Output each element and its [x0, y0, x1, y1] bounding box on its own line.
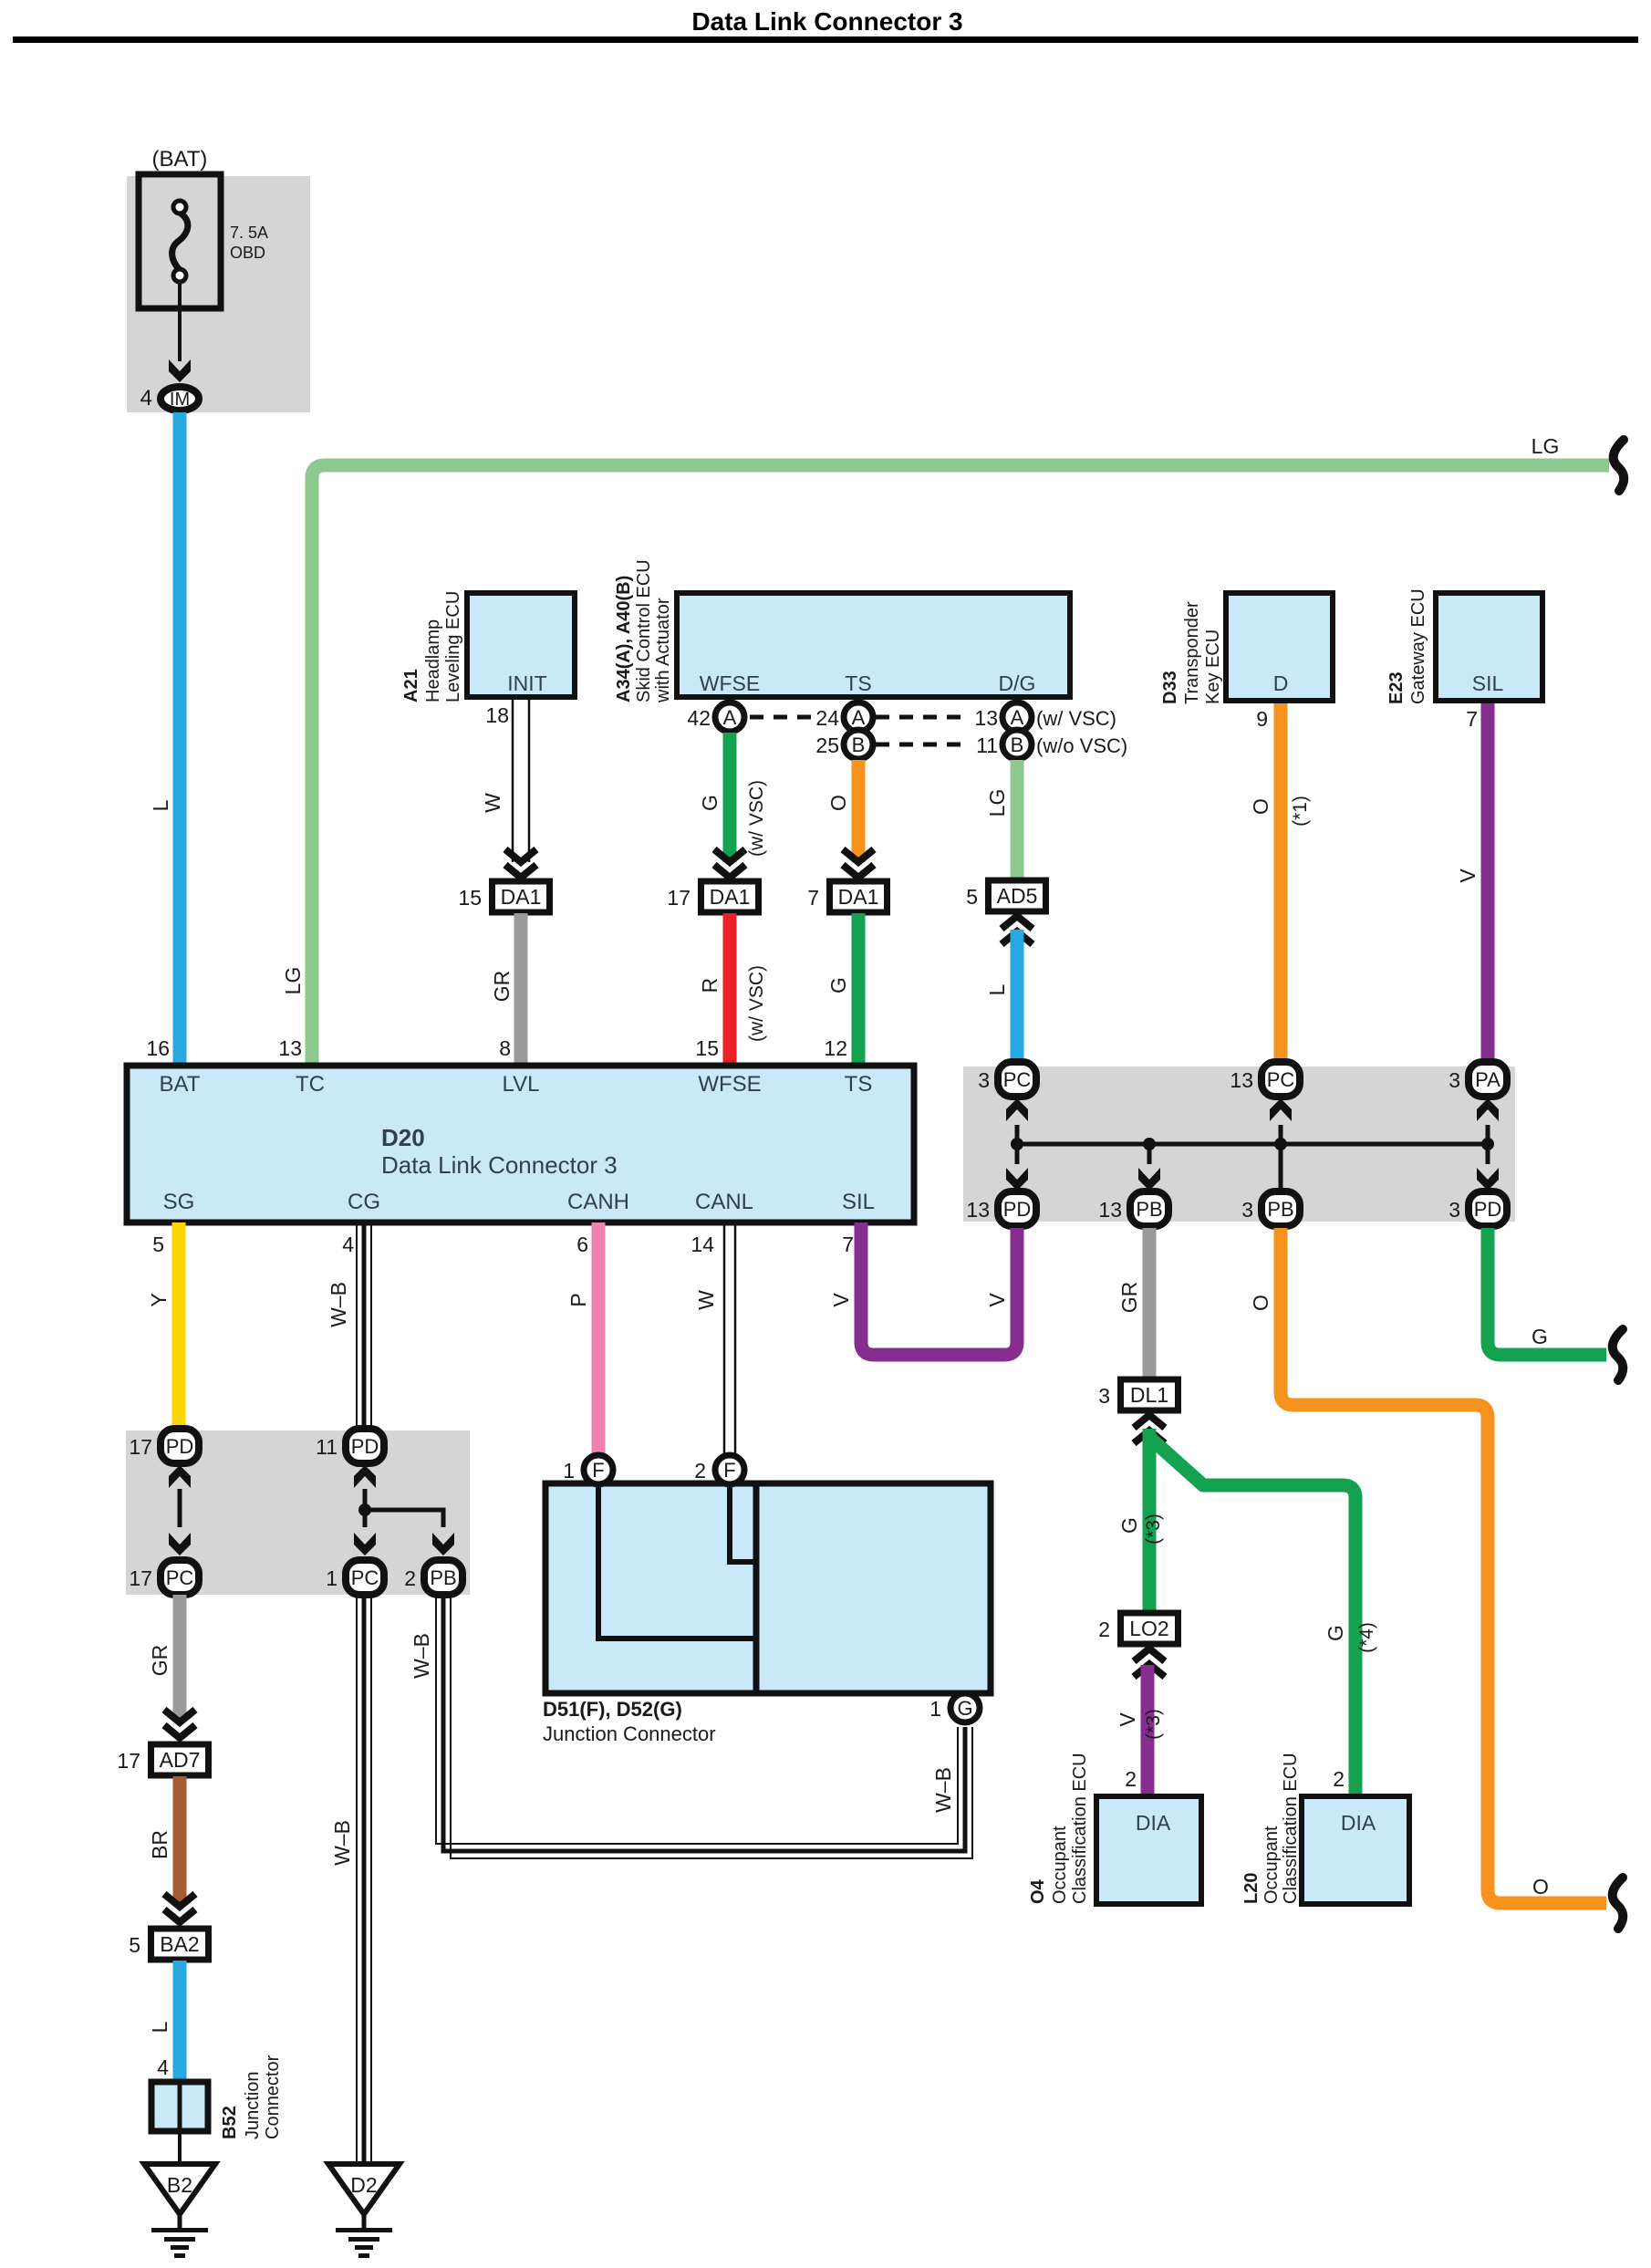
svg-text:CANH: CANH — [567, 1190, 629, 1214]
svg-text:L20: L20 — [1241, 1873, 1262, 1904]
svg-text:CG: CG — [348, 1190, 380, 1214]
svg-text:PB: PB — [1267, 1198, 1293, 1221]
node at 13 PB column — [1143, 1138, 1156, 1150]
svg-text:W–B: W–B — [931, 1767, 955, 1813]
svg-text:PD: PD — [351, 1435, 379, 1458]
svg-text:Y: Y — [147, 1293, 171, 1306]
bus line in right panel — [1017, 1142, 1488, 1147]
wire B52 to ground B2 — [178, 2131, 182, 2164]
svg-text:IM: IM — [170, 390, 190, 410]
svg-text:PC: PC — [1003, 1068, 1032, 1091]
connector 1 F — [584, 1455, 613, 1484]
connector 1 PC — [346, 1560, 384, 1595]
svg-text:3: 3 — [1098, 1384, 1110, 1408]
svg-text:D51(F), D52(G): D51(F), D52(G) — [543, 1698, 682, 1721]
svg-text:A34(A), A40(B): A34(A), A40(B) — [614, 576, 634, 702]
svg-text:W: W — [694, 1290, 718, 1310]
svg-text:A21: A21 — [401, 669, 421, 702]
svg-text:13: 13 — [1098, 1198, 1122, 1222]
wire L blue BA2 to B52 — [173, 1961, 187, 2084]
junction connector B52 — [151, 2082, 208, 2131]
wire Y yellow SG to 17 PD — [172, 1222, 186, 1428]
svg-text:(*3): (*3) — [1143, 1709, 1164, 1740]
svg-text:13: 13 — [278, 1036, 302, 1060]
wire G green branch DL1 to L20 DIA — [1151, 1439, 1355, 1794]
svg-text:D/G: D/G — [999, 671, 1036, 695]
link bus to 13 PB — [1147, 1144, 1152, 1164]
svg-text:DA1: DA1 — [838, 885, 879, 909]
svg-text:TS: TS — [845, 671, 871, 695]
wire GR gray 17 PC to AD7 — [173, 1595, 187, 1721]
wire G green 3 PD to right edge — [1488, 1228, 1606, 1355]
svg-text:5: 5 — [129, 1933, 140, 1957]
svg-text:with Actuator: with Actuator — [653, 598, 673, 703]
svg-text:G: G — [1324, 1625, 1347, 1641]
svg-text:OBD: OBD — [230, 244, 265, 262]
divider D51/D52 — [753, 1483, 760, 1693]
svg-text:A: A — [723, 706, 737, 729]
svg-text:16: 16 — [146, 1036, 170, 1060]
svg-text:2: 2 — [1098, 1618, 1110, 1641]
wire W white CANL to junction F2 — [723, 1222, 726, 1454]
svg-text:BAT: BAT — [160, 1072, 201, 1097]
svg-text:4: 4 — [140, 386, 152, 411]
connector 3 DL1 — [1121, 1379, 1179, 1410]
svg-text:CANL: CANL — [695, 1190, 753, 1214]
svg-text:D33: D33 — [1160, 671, 1180, 704]
svg-text:W: W — [481, 793, 504, 813]
svg-text:PD: PD — [1474, 1198, 1502, 1221]
svg-text:3: 3 — [1241, 1198, 1253, 1222]
wire BR brown AD7 to BA2 — [173, 1776, 187, 1905]
connector 3 PA — [1469, 1062, 1507, 1097]
branch to 2 PB — [365, 1510, 443, 1527]
fuse OBD rectangle — [139, 174, 221, 308]
svg-text:G: G — [957, 1697, 972, 1720]
link 11 PD down — [363, 1489, 368, 1527]
svg-text:TC: TC — [296, 1072, 325, 1097]
svg-text:6: 6 — [576, 1233, 588, 1256]
arrow into AD7 — [164, 1710, 195, 1722]
svg-text:PD: PD — [1003, 1198, 1032, 1221]
connector 15 DA1 — [493, 881, 550, 912]
svg-text:Connector: Connector — [263, 2055, 283, 2139]
arrow into BA2 — [164, 1894, 195, 1907]
svg-text:PC: PC — [166, 1566, 194, 1589]
wire P pink CANH to junction F1 — [592, 1222, 606, 1454]
svg-text:G: G — [1532, 1325, 1548, 1348]
svg-text:AD7: AD7 — [160, 1748, 201, 1772]
ECU E23 Gateway box — [1436, 593, 1542, 701]
link bus to 3 PB — [1279, 1144, 1283, 1191]
wire GR gray 13 PB to DL1 — [1143, 1228, 1157, 1378]
connector 3 PB — [1262, 1191, 1300, 1226]
svg-text:PA: PA — [1475, 1068, 1500, 1091]
svg-text:17: 17 — [129, 1566, 152, 1590]
svg-text:25: 25 — [815, 733, 839, 757]
node at 13 PC column — [1274, 1138, 1287, 1150]
svg-text:G: G — [698, 795, 722, 811]
svg-text:3: 3 — [978, 1068, 990, 1092]
svg-text:42: 42 — [687, 706, 711, 730]
ground D2 — [328, 2164, 400, 2214]
svg-text:TS: TS — [845, 1072, 873, 1097]
link bus to 13 PD — [1015, 1144, 1020, 1164]
svg-text:DL1: DL1 — [1130, 1383, 1168, 1407]
arrow up into DL1 — [1134, 1431, 1165, 1443]
svg-text:9: 9 — [1256, 707, 1268, 731]
svg-text:BR: BR — [148, 1830, 171, 1859]
ECU A34/A40 Skid Control box — [677, 593, 1070, 697]
svg-text:15: 15 — [695, 1036, 719, 1060]
wire O orange 3 PB to right edge — [1281, 1228, 1606, 1903]
wire W-B 1 PC to ground D2 — [362, 1595, 367, 2164]
svg-text:(w/ VSC): (w/ VSC) — [1036, 707, 1116, 730]
svg-text:DIA: DIA — [1136, 1811, 1171, 1835]
svg-text:7: 7 — [842, 1233, 854, 1256]
svg-text:GR: GR — [148, 1645, 171, 1677]
svg-text:7. 5A: 7. 5A — [230, 224, 268, 242]
wire R red DA1 to D20 WFSE — [723, 913, 737, 1064]
svg-text:PC: PC — [351, 1566, 379, 1589]
svg-text:3: 3 — [1449, 1198, 1460, 1222]
right connector panel — [963, 1066, 1515, 1222]
svg-text:Data Link Connector 3: Data Link Connector 3 — [381, 1151, 618, 1179]
break squiggle G — [1613, 1329, 1624, 1380]
svg-text:L: L — [148, 2021, 171, 2033]
svg-text:2: 2 — [404, 1566, 416, 1590]
wire V purple E23 to 3 PA — [1481, 703, 1495, 1062]
ECU D33 Transponder Key box — [1226, 593, 1333, 701]
title rule — [13, 36, 1638, 43]
connector 13 PD — [998, 1191, 1036, 1226]
inner link from F2 — [730, 1487, 756, 1562]
svg-text:LO2: LO2 — [1129, 1617, 1168, 1640]
svg-text:V: V — [1456, 869, 1480, 883]
svg-text:(BAT): (BAT) — [152, 147, 208, 172]
svg-text:LG: LG — [281, 967, 305, 995]
svg-text:2: 2 — [694, 1459, 706, 1483]
arrow into 17 DA1 — [714, 849, 745, 862]
connector 3 PD — [1469, 1191, 1507, 1226]
svg-text:18: 18 — [485, 703, 509, 727]
wire W-B 2 PB to junction G — [443, 1595, 965, 1851]
svg-text:Classification ECU: Classification ECU — [1281, 1753, 1301, 1904]
dashed link A-A — [750, 715, 814, 720]
svg-text:4: 4 — [157, 2055, 169, 2079]
arrow up into LO2 — [1134, 1664, 1165, 1677]
svg-text:DA1: DA1 — [501, 885, 542, 909]
wire O orange D33 to 13 PC — [1274, 703, 1288, 1062]
svg-text:Gateway ECU: Gateway ECU — [1408, 588, 1428, 704]
connector 2 LO2 — [1121, 1613, 1179, 1644]
svg-text:F: F — [723, 1459, 735, 1482]
wire L blue AD5 to 3 PC — [1011, 930, 1024, 1062]
svg-text:17: 17 — [117, 1749, 140, 1773]
svg-text:R: R — [698, 978, 722, 994]
svg-text:E23: E23 — [1386, 671, 1407, 704]
svg-text:D20: D20 — [381, 1124, 425, 1151]
connector 17 AD7 — [151, 1744, 209, 1775]
dashed link B-B — [876, 743, 965, 747]
ground B2 — [144, 2164, 215, 2214]
ECU L20 Occupant Classification box — [1302, 1796, 1409, 1904]
arrow up into AD5 — [1002, 931, 1033, 944]
svg-text:Junction: Junction — [243, 2072, 263, 2140]
svg-text:SIL: SIL — [842, 1190, 875, 1214]
svg-text:Transponder: Transponder — [1182, 601, 1202, 704]
svg-text:W–B: W–B — [410, 1633, 433, 1679]
svg-text:D2: D2 — [350, 2173, 377, 2197]
dashed link A-A right — [876, 715, 965, 720]
wire V purple LO2 to O4 DIA — [1141, 1665, 1155, 1794]
fuse element symbol — [172, 213, 188, 270]
svg-text:O: O — [1249, 1295, 1272, 1311]
svg-text:W–B: W–B — [327, 1282, 350, 1327]
connector 2 F — [715, 1455, 744, 1484]
svg-text:D: D — [1273, 671, 1289, 695]
connector 2 PB — [424, 1560, 462, 1595]
svg-text:7: 7 — [1466, 707, 1478, 731]
link 3 PA to bus — [1486, 1125, 1490, 1144]
svg-text:7: 7 — [807, 886, 819, 910]
svg-text:G: G — [826, 977, 850, 994]
wire GR gray DA1 to D20 LVL — [514, 913, 528, 1064]
svg-text:BA2: BA2 — [160, 1932, 199, 1956]
svg-text:V: V — [985, 1293, 1009, 1307]
svg-text:3: 3 — [1449, 1068, 1460, 1092]
link 13 PC to bus — [1279, 1125, 1283, 1144]
wire fuse to IM — [178, 282, 182, 361]
wire L blue from IM to D20 BAT — [173, 412, 187, 1064]
svg-text:PD: PD — [166, 1435, 194, 1458]
svg-text:Classification ECU: Classification ECU — [1070, 1753, 1090, 1904]
svg-text:W–B: W–B — [330, 1820, 354, 1866]
svg-text:1: 1 — [326, 1566, 337, 1590]
svg-text:14: 14 — [691, 1233, 714, 1256]
svg-text:A: A — [852, 706, 866, 729]
svg-text:(*4): (*4) — [1356, 1622, 1377, 1653]
svg-text:V: V — [829, 1293, 853, 1307]
svg-text:V: V — [1116, 1712, 1139, 1727]
left connector panel — [126, 1431, 470, 1595]
fuse area gray panel — [127, 176, 310, 412]
svg-text:INIT: INIT — [507, 671, 546, 695]
svg-text:8: 8 — [499, 1036, 511, 1060]
svg-text:O: O — [1532, 1875, 1549, 1899]
svg-text:SG: SG — [163, 1190, 195, 1214]
svg-text:B2: B2 — [167, 2173, 192, 2197]
svg-text:DIA: DIA — [1341, 1811, 1376, 1835]
svg-text:SIL: SIL — [1472, 671, 1504, 695]
break squiggle LG — [1614, 440, 1625, 491]
svg-text:12: 12 — [824, 1036, 847, 1060]
svg-text:13: 13 — [966, 1198, 990, 1222]
junction connector D51 D52 box — [545, 1483, 991, 1693]
svg-text:LG: LG — [985, 789, 1009, 817]
connector 5 BA2 — [151, 1929, 209, 1960]
ECU A21 Headlamp Leveling box — [467, 593, 575, 697]
connector 17 PD — [161, 1429, 199, 1463]
svg-text:(w/ VSC): (w/ VSC) — [746, 780, 767, 857]
svg-text:13: 13 — [1230, 1068, 1253, 1092]
ECU O4 Occupant Classification box — [1096, 1796, 1201, 1904]
svg-text:LVL: LVL — [503, 1072, 540, 1097]
svg-text:WFSE: WFSE — [700, 671, 760, 695]
break squiggle O — [1613, 1878, 1624, 1929]
connector 13 PC — [1262, 1062, 1300, 1097]
connector 17 DA1 — [701, 881, 759, 912]
svg-text:(w/ VSC): (w/ VSC) — [746, 965, 767, 1042]
svg-text:G: G — [1117, 1517, 1141, 1534]
link bus to 3 PD — [1486, 1144, 1490, 1164]
svg-text:1: 1 — [929, 1697, 941, 1721]
connector D20 Data Link Connector 3 box — [127, 1066, 914, 1222]
node at 3 PA column — [1481, 1138, 1494, 1150]
svg-text:LG: LG — [1532, 434, 1560, 458]
svg-text:11: 11 — [316, 1435, 337, 1459]
connector 13 PB — [1130, 1191, 1168, 1226]
svg-text:(w/o VSC): (w/o VSC) — [1036, 734, 1127, 757]
svg-text:PB: PB — [1136, 1198, 1162, 1221]
wire O orange TS to DA1 — [852, 760, 866, 862]
svg-text:17: 17 — [129, 1435, 152, 1459]
svg-text:L: L — [985, 983, 1009, 995]
connector 17 PC — [161, 1560, 199, 1595]
svg-text:1: 1 — [563, 1459, 575, 1483]
svg-text:Skid Control ECU: Skid Control ECU — [634, 559, 654, 702]
node under 11 PD — [358, 1503, 371, 1516]
svg-text:AD5: AD5 — [997, 884, 1038, 908]
wire G green WFSE to DA1 — [723, 733, 737, 862]
svg-text:Key ECU: Key ECU — [1203, 629, 1223, 704]
svg-text:Occupant: Occupant — [1262, 1826, 1282, 1904]
link 3 PC to bus — [1015, 1125, 1020, 1144]
connector 3 PC — [998, 1062, 1036, 1097]
connector 7 DA1 — [830, 881, 888, 912]
wire LG light green from TC to right edge — [312, 465, 1609, 1064]
arrow into 7 DA1 — [843, 849, 874, 862]
arrow into DA1 (LVL) — [505, 849, 536, 862]
wire G green DL1 to LO2 — [1143, 1429, 1157, 1611]
wire W white INIT to DA1 — [512, 700, 514, 862]
connector IM — [161, 387, 199, 411]
svg-text:L: L — [149, 799, 172, 811]
svg-text:PC: PC — [1267, 1068, 1295, 1091]
svg-text:B: B — [1011, 733, 1024, 756]
connector 5 AD5 — [989, 880, 1046, 911]
svg-text:F: F — [592, 1459, 604, 1482]
svg-text:15: 15 — [458, 886, 482, 910]
svg-text:Junction Connector: Junction Connector — [543, 1722, 716, 1745]
svg-text:17: 17 — [667, 886, 691, 910]
svg-text:5: 5 — [152, 1233, 164, 1256]
node at 3 PC column — [1011, 1138, 1023, 1150]
svg-text:P: P — [566, 1293, 590, 1306]
link 17 PD to 17 PC — [178, 1489, 182, 1527]
svg-text:WFSE: WFSE — [698, 1072, 761, 1097]
svg-text:O: O — [826, 795, 850, 811]
svg-text:2: 2 — [1125, 1767, 1137, 1791]
svg-text:B: B — [852, 733, 866, 756]
svg-text:O4: O4 — [1028, 1878, 1048, 1904]
svg-text:24: 24 — [815, 706, 839, 730]
svg-text:Data Link Connector 3: Data Link Connector 3 — [691, 7, 962, 36]
connector 1 G — [950, 1693, 980, 1722]
svg-text:GR: GR — [1117, 1282, 1141, 1314]
svg-text:11: 11 — [976, 733, 998, 757]
svg-text:(*3): (*3) — [1143, 1514, 1164, 1545]
svg-text:Headlamp: Headlamp — [423, 619, 443, 702]
svg-text:GR: GR — [490, 971, 514, 1003]
svg-text:5: 5 — [966, 885, 978, 909]
svg-text:2: 2 — [1333, 1767, 1345, 1791]
wire W-B CG to 11 PD — [362, 1222, 367, 1428]
wire LG light green D/G to AD5 — [1011, 760, 1024, 879]
svg-text:PB: PB — [430, 1566, 456, 1589]
wire G green DA1 to D20 TS — [852, 913, 866, 1064]
inner link from F1 — [598, 1487, 756, 1639]
svg-text:4: 4 — [342, 1233, 354, 1256]
connector 11 PD — [346, 1429, 384, 1463]
svg-text:B52: B52 — [220, 2106, 240, 2139]
svg-text:DA1: DA1 — [710, 885, 751, 909]
svg-text:Leveling ECU: Leveling ECU — [443, 591, 463, 702]
wire V purple SIL to 13 PD — [861, 1222, 1017, 1355]
svg-text:A: A — [1011, 706, 1024, 729]
svg-text:Occupant: Occupant — [1050, 1826, 1070, 1904]
svg-text:O: O — [1249, 798, 1272, 815]
svg-text:(*1): (*1) — [1290, 796, 1311, 827]
svg-text:13: 13 — [974, 706, 998, 730]
